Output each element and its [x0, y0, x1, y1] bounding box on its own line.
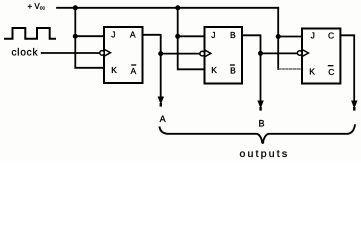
U3 C-bar overline [328, 65, 334, 67]
wire FF3 J input [278, 36, 302, 38]
svg-text:outputs: outputs [240, 148, 290, 160]
brace under outputs [160, 124, 356, 143]
wire Vcc feed FF2 (J and K tie) [178, 8, 205, 70]
flip-flop U1 box [104, 27, 143, 83]
svg-text:B: B [230, 30, 236, 40]
svg-text:K: K [211, 65, 217, 75]
svg-text:A: A [160, 114, 166, 124]
output arrow A [158, 97, 164, 107]
svg-text:K: K [111, 65, 117, 75]
wire FF3 K input (faint in scan) [278, 68, 302, 70]
U2 B-bar overline [230, 64, 235, 66]
svg-text:B: B [230, 66, 236, 76]
flip-flop U3 box [302, 29, 340, 84]
svg-text:K: K [309, 66, 315, 76]
U1 A-bar overline [131, 64, 136, 66]
wire clock line [42, 52, 100, 54]
node FF3 J [276, 34, 281, 39]
svg-text:clock: clock [12, 48, 39, 59]
svg-text:A: A [131, 66, 137, 76]
wire node A to FF2 clock [161, 53, 200, 55]
node A clock tap [158, 51, 163, 56]
flip-flop U2 box [205, 27, 243, 84]
Vcc rail [57, 7, 278, 9]
wire FF2 J input [178, 35, 205, 37]
U1 pin labels [111, 30, 136, 76]
U1 clock bubble and edge wedge [100, 50, 111, 56]
svg-text:B: B [259, 118, 265, 128]
junction dots [73, 5, 281, 56]
svg-text:A: A [130, 30, 136, 40]
node rail-FF1 [73, 5, 78, 10]
brace tip blob [261, 141, 264, 144]
wire Vcc feed FF3 (J and K tie) [277, 8, 279, 69]
svg-text:J: J [211, 30, 215, 40]
wire B output to node B [242, 35, 261, 101]
output arrow C [351, 101, 357, 111]
wire C output down [340, 35, 354, 101]
clock waveform [5, 28, 55, 39]
U3 clock bubble and edge wedge [297, 50, 308, 56]
node B clock tap [258, 51, 263, 56]
node FF2 J [175, 34, 180, 39]
U3 pin labels [309, 31, 334, 77]
svg-text:J: J [311, 31, 315, 41]
wire node B to FF3 clock [261, 52, 298, 54]
wire FF1 J input [75, 35, 104, 37]
svg-text:C: C [328, 31, 334, 41]
node rail-FF2 [175, 5, 180, 10]
svg-text:C: C [328, 67, 334, 77]
svg-text:+ Vcc: + Vcc [28, 2, 46, 11]
svg-text:J: J [111, 30, 115, 40]
wire Vcc feed FF1 (J and K tie) [75, 8, 104, 68]
U2 pin labels [211, 30, 236, 76]
node FF1 J [73, 34, 78, 39]
wire A output to node A [143, 35, 161, 97]
U2 clock bubble and edge wedge [200, 50, 211, 56]
output arrow B [257, 101, 263, 111]
